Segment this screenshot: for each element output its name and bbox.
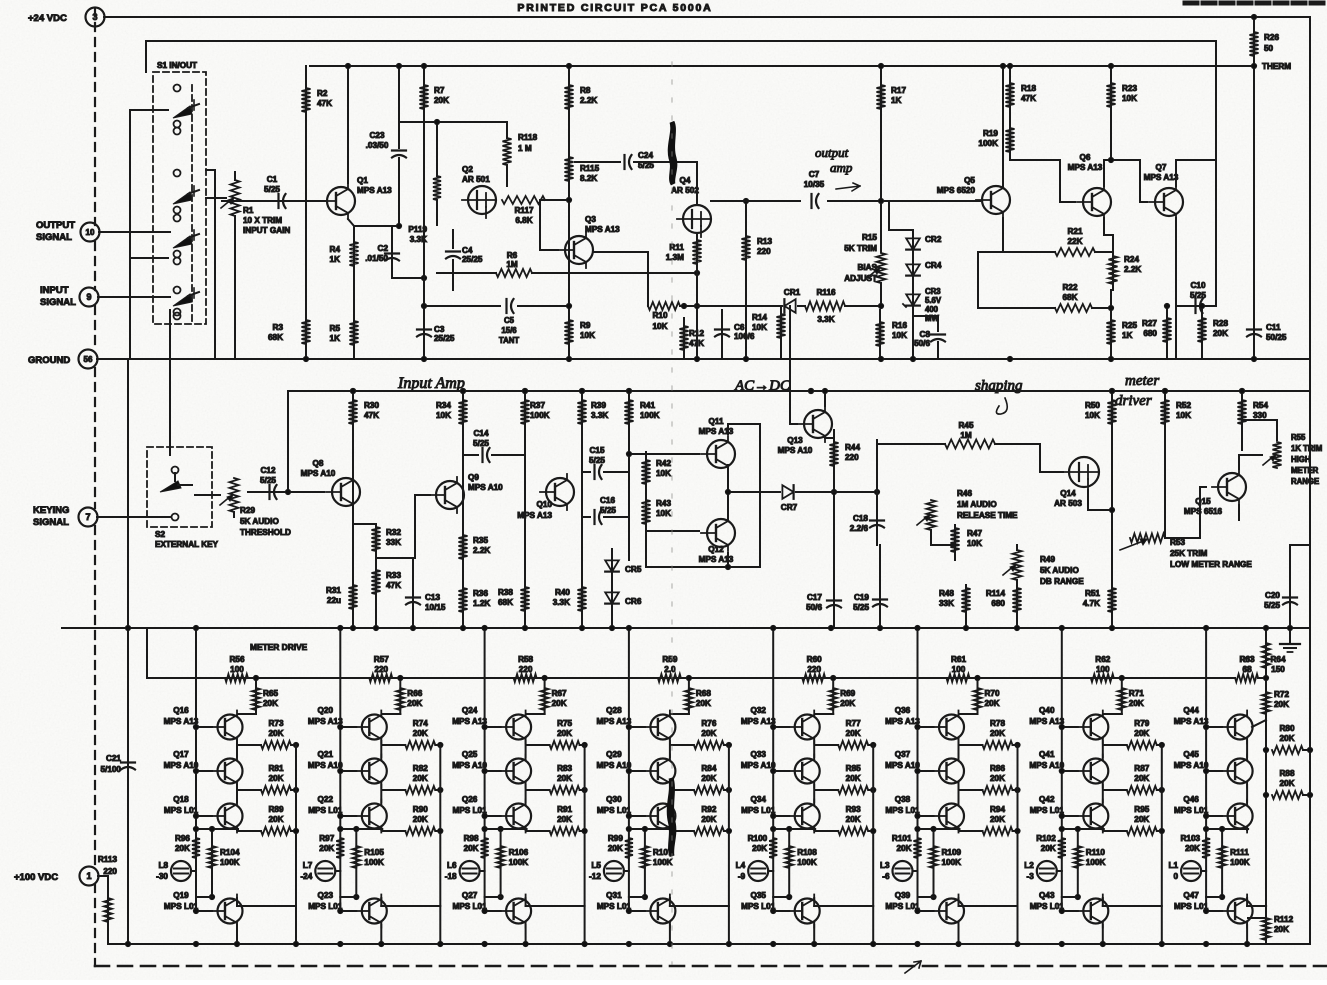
svg-text:MPS A13: MPS A13 [741, 717, 776, 726]
svg-text:100K: 100K [530, 411, 550, 420]
svg-text:C12: C12 [260, 466, 275, 475]
svg-text:Q15: Q15 [1195, 497, 1211, 506]
svg-text:220: 220 [757, 247, 771, 256]
svg-text:R76: R76 [701, 719, 716, 728]
svg-text:R2: R2 [317, 89, 328, 98]
svg-text:20K: 20K [1279, 779, 1294, 788]
svg-text:R68: R68 [696, 689, 711, 698]
svg-text:220: 220 [807, 665, 821, 674]
svg-text:100: 100 [1096, 665, 1110, 674]
svg-text:L4: L4 [736, 861, 746, 870]
svg-text:Q47: Q47 [1183, 891, 1199, 900]
svg-text:100K: 100K [653, 858, 673, 867]
svg-text:Q10: Q10 [537, 500, 553, 509]
svg-text:10K: 10K [1176, 411, 1191, 420]
svg-text:MPS A10: MPS A10 [301, 469, 336, 478]
svg-text:20K: 20K [896, 844, 911, 853]
svg-text:R89: R89 [268, 805, 283, 814]
svg-text:R110: R110 [1086, 848, 1106, 857]
svg-text:MPS A10: MPS A10 [1029, 761, 1064, 770]
svg-text:R21: R21 [1067, 227, 1082, 236]
svg-text:2.2K: 2.2K [1124, 265, 1141, 274]
svg-text:R94: R94 [990, 805, 1005, 814]
svg-text:Q17: Q17 [173, 750, 189, 759]
svg-text:10K: 10K [752, 323, 767, 332]
svg-text:1K: 1K [1122, 331, 1133, 340]
svg-text:10K: 10K [1122, 94, 1137, 103]
svg-text:C21: C21 [106, 754, 121, 763]
svg-text:100K: 100K [364, 858, 384, 867]
svg-text:R22: R22 [1062, 283, 1077, 292]
svg-text:C6: C6 [734, 323, 745, 332]
svg-text:20K: 20K [840, 699, 855, 708]
svg-text:R95: R95 [1134, 805, 1149, 814]
svg-text:R70: R70 [985, 689, 1000, 698]
svg-text:R32: R32 [386, 528, 401, 537]
svg-text:Q34: Q34 [750, 795, 766, 804]
svg-text:R54: R54 [1253, 401, 1268, 410]
svg-text:5/25: 5/25 [853, 603, 869, 612]
svg-text:Q38: Q38 [895, 795, 911, 804]
svg-text:MPS A10: MPS A10 [164, 761, 199, 770]
svg-text:R30: R30 [364, 401, 379, 410]
svg-text:20K: 20K [608, 844, 623, 853]
svg-text:R113: R113 [98, 855, 118, 864]
svg-text:C19: C19 [854, 593, 869, 602]
svg-text:L7: L7 [303, 861, 313, 870]
svg-text:P119: P119 [408, 225, 427, 234]
svg-text:METER DRIVE: METER DRIVE [250, 642, 308, 652]
svg-text:Q13: Q13 [787, 436, 803, 445]
svg-text:R75: R75 [557, 719, 572, 728]
svg-text:L2: L2 [1024, 861, 1034, 870]
svg-text:R15: R15 [862, 233, 877, 242]
svg-text:MPS A10: MPS A10 [1174, 761, 1209, 770]
svg-text:Q37: Q37 [895, 750, 911, 759]
svg-text:R28: R28 [1213, 319, 1228, 328]
svg-text:4.7K: 4.7K [1083, 599, 1100, 608]
svg-text:R84: R84 [701, 764, 716, 773]
svg-text:R49: R49 [1040, 555, 1055, 564]
svg-text:R109: R109 [942, 848, 962, 857]
svg-text:MPS A13: MPS A13 [164, 717, 199, 726]
svg-text:R38: R38 [498, 588, 513, 597]
svg-text:1M AUDIO: 1M AUDIO [957, 500, 997, 509]
svg-text:Q6: Q6 [1080, 153, 1091, 162]
svg-text:R34: R34 [436, 401, 451, 410]
svg-text:R3: R3 [273, 323, 284, 332]
svg-text:-6: -6 [882, 872, 890, 881]
svg-text:5K AUDIO: 5K AUDIO [1040, 566, 1079, 575]
svg-text:Q35: Q35 [750, 891, 766, 900]
svg-text:25/25: 25/25 [462, 255, 483, 264]
svg-text:5/100: 5/100 [101, 765, 122, 774]
svg-text:R45: R45 [958, 421, 973, 430]
svg-text:Q19: Q19 [173, 891, 189, 900]
svg-text:400: 400 [925, 305, 939, 314]
svg-text:20K: 20K [319, 844, 334, 853]
svg-text:SIGNAL: SIGNAL [33, 517, 69, 528]
svg-text:driver: driver [1115, 393, 1152, 409]
svg-text:Q46: Q46 [1183, 795, 1199, 804]
svg-text:R46: R46 [957, 489, 972, 498]
svg-text:Q31: Q31 [606, 891, 622, 900]
svg-text:R58: R58 [518, 655, 533, 664]
svg-text:20K: 20K [752, 844, 767, 853]
svg-text:33K: 33K [939, 599, 954, 608]
svg-text:10K: 10K [1085, 411, 1100, 420]
svg-text:100: 100 [230, 665, 244, 674]
svg-text:5/25: 5/25 [589, 456, 605, 465]
svg-text:C20: C20 [1265, 591, 1280, 600]
svg-text:R69: R69 [840, 689, 855, 698]
svg-text:MPS A13: MPS A13 [357, 186, 392, 195]
svg-text:R72: R72 [1274, 690, 1289, 699]
svg-text:PRINTED CIRCUIT PCA 5000A: PRINTED CIRCUIT PCA 5000A [517, 2, 712, 14]
svg-text:AR 501: AR 501 [462, 175, 490, 184]
svg-text:Q5: Q5 [964, 176, 975, 185]
svg-text:R111: R111 [1230, 848, 1249, 857]
svg-text:Q3: Q3 [585, 215, 596, 224]
svg-text:C1: C1 [267, 175, 278, 184]
svg-text:L6: L6 [447, 861, 457, 870]
svg-text:HIGH: HIGH [1291, 455, 1311, 464]
svg-text:Q9: Q9 [468, 473, 479, 482]
svg-text:MPS A13: MPS A13 [597, 717, 632, 726]
svg-text:10K: 10K [652, 322, 667, 331]
svg-text:C16: C16 [600, 496, 615, 505]
svg-text:shaping: shaping [975, 378, 1023, 394]
svg-text:20K: 20K [557, 815, 572, 824]
svg-text:MPS A10: MPS A10 [885, 761, 920, 770]
svg-text:R42: R42 [656, 459, 671, 468]
svg-text:20K: 20K [552, 699, 567, 708]
svg-text:10K: 10K [967, 539, 982, 548]
svg-text:Q44: Q44 [1183, 706, 1199, 715]
svg-text:100K: 100K [1086, 858, 1106, 867]
svg-text:C5: C5 [504, 316, 515, 325]
svg-text:47K: 47K [364, 411, 379, 420]
svg-text:R97: R97 [319, 834, 334, 843]
svg-text:R104: R104 [220, 848, 240, 857]
svg-text:MPS A13: MPS A13 [1068, 163, 1103, 172]
svg-text:20K: 20K [1185, 844, 1200, 853]
svg-text:MPS L01: MPS L01 [885, 806, 920, 815]
svg-text:220: 220 [519, 665, 533, 674]
svg-text:R99: R99 [608, 834, 623, 843]
svg-text:Q2: Q2 [462, 165, 473, 174]
svg-text:20K: 20K [701, 815, 716, 824]
svg-text:amp: amp [830, 160, 853, 175]
svg-text:Q42: Q42 [1039, 795, 1055, 804]
svg-text:100K: 100K [640, 411, 660, 420]
svg-text:Q28: Q28 [606, 706, 622, 715]
svg-text:R43: R43 [656, 499, 671, 508]
svg-text:Q36: Q36 [895, 706, 911, 715]
svg-text:R40: R40 [555, 588, 570, 597]
svg-text:R27: R27 [1142, 319, 1157, 328]
svg-text:R117: R117 [514, 206, 534, 215]
svg-text:7: 7 [85, 512, 90, 522]
svg-text:5/25: 5/25 [260, 476, 276, 485]
svg-text:R65: R65 [263, 689, 278, 698]
svg-text:10K: 10K [656, 509, 671, 518]
svg-text:R82: R82 [413, 764, 428, 773]
svg-text:20K: 20K [434, 96, 449, 105]
svg-text:5/25: 5/25 [1190, 291, 1206, 300]
svg-text:10K: 10K [892, 331, 907, 340]
svg-text:CR2: CR2 [925, 235, 942, 244]
svg-text:CR1: CR1 [784, 288, 801, 297]
svg-text:MPS L01: MPS L01 [1174, 806, 1209, 815]
svg-text:C7: C7 [809, 170, 820, 179]
svg-text:GROUND: GROUND [28, 355, 70, 366]
svg-text:-30: -30 [156, 872, 168, 881]
svg-text:R1: R1 [243, 206, 254, 215]
svg-text:R60: R60 [807, 655, 822, 664]
svg-text:-12: -12 [589, 872, 601, 881]
svg-text:R71: R71 [1129, 689, 1144, 698]
svg-text:R13: R13 [757, 237, 772, 246]
svg-text:10K: 10K [436, 411, 451, 420]
svg-text:R10: R10 [652, 311, 667, 320]
svg-text:C11: C11 [1266, 323, 1281, 332]
svg-text:Input Amp: Input Amp [397, 375, 465, 392]
svg-text:L8: L8 [158, 861, 168, 870]
svg-text:MPS A10: MPS A10 [468, 483, 503, 492]
svg-text:C8: C8 [920, 330, 931, 339]
svg-text:20K: 20K [1274, 925, 1289, 934]
svg-text:3.3K: 3.3K [591, 411, 608, 420]
svg-text:MPS 6520: MPS 6520 [937, 186, 976, 195]
svg-text:3.3K: 3.3K [817, 315, 834, 324]
svg-text:S1 IN/OUT: S1 IN/OUT [157, 61, 197, 70]
svg-text:R85: R85 [846, 764, 861, 773]
svg-text:20K: 20K [1134, 815, 1149, 824]
svg-text:R77: R77 [846, 719, 861, 728]
svg-text:5/25: 5/25 [264, 185, 280, 194]
svg-text:100K: 100K [942, 858, 962, 867]
svg-text:MPS L01: MPS L01 [308, 902, 343, 911]
svg-text:MPS A10: MPS A10 [778, 446, 813, 455]
svg-text:R35: R35 [473, 536, 488, 545]
svg-text:MPS A10: MPS A10 [452, 761, 487, 770]
svg-text:C2: C2 [378, 244, 389, 253]
svg-text:THERM: THERM [1262, 62, 1291, 71]
svg-text:1: 1 [86, 871, 91, 881]
svg-text:20K: 20K [464, 844, 479, 853]
svg-text:Q45: Q45 [1183, 750, 1199, 759]
svg-text:0: 0 [1174, 872, 1179, 881]
svg-text:20K: 20K [263, 699, 278, 708]
svg-text:Q1: Q1 [357, 176, 368, 185]
svg-text:R59: R59 [662, 655, 677, 664]
svg-text:R17: R17 [891, 86, 906, 95]
svg-text:R103: R103 [1181, 834, 1201, 843]
svg-text:R98: R98 [464, 834, 479, 843]
svg-text:R51: R51 [1085, 589, 1100, 598]
svg-text:56: 56 [84, 355, 93, 364]
svg-text:R87: R87 [1134, 764, 1149, 773]
svg-text:C3: C3 [434, 325, 445, 334]
svg-text:R108: R108 [797, 848, 817, 857]
svg-text:MPS L01: MPS L01 [885, 902, 920, 911]
svg-text:25/25: 25/25 [434, 334, 455, 343]
svg-text:1 M: 1 M [518, 144, 532, 153]
svg-text:AC→DC: AC→DC [734, 378, 791, 394]
svg-text:R4: R4 [330, 245, 341, 254]
svg-text:5K AUDIO: 5K AUDIO [240, 517, 279, 526]
svg-text:Q12: Q12 [708, 545, 724, 554]
svg-text:100K: 100K [978, 139, 998, 148]
svg-text:Q18: Q18 [173, 795, 189, 804]
svg-text:R5: R5 [330, 324, 341, 333]
svg-text:R12: R12 [689, 329, 704, 338]
svg-text:Q27: Q27 [462, 891, 478, 900]
svg-text:47K: 47K [1021, 94, 1036, 103]
svg-text:THRESHOLD: THRESHOLD [240, 528, 291, 537]
svg-text:MPS A13: MPS A13 [1174, 717, 1209, 726]
svg-text:Q25: Q25 [462, 750, 478, 759]
svg-text:R83: R83 [557, 764, 572, 773]
svg-text:CR5: CR5 [625, 565, 642, 574]
svg-text:5K TRIM: 5K TRIM [844, 244, 877, 253]
svg-text:R52: R52 [1176, 401, 1191, 410]
svg-text:R39: R39 [591, 401, 606, 410]
svg-text:R102: R102 [1036, 834, 1056, 843]
svg-text:220: 220 [374, 665, 388, 674]
svg-text:R26: R26 [1264, 33, 1279, 42]
svg-text:MPS L01: MPS L01 [308, 806, 343, 815]
svg-text:R74: R74 [413, 719, 428, 728]
svg-text:-18: -18 [445, 872, 457, 881]
svg-text:100: 100 [952, 665, 966, 674]
svg-text:2.2K: 2.2K [473, 546, 490, 555]
svg-text:20K: 20K [1134, 774, 1149, 783]
svg-text:C14: C14 [473, 429, 488, 438]
svg-text:20K: 20K [557, 729, 572, 738]
svg-text:R114: R114 [986, 589, 1006, 598]
svg-text:CR4: CR4 [925, 261, 942, 270]
svg-text:CR6: CR6 [625, 597, 642, 606]
svg-text:R78: R78 [990, 719, 1005, 728]
svg-text:CR3: CR3 [925, 287, 941, 296]
svg-text:47K: 47K [386, 581, 401, 590]
svg-text:BIAS: BIAS [857, 263, 877, 272]
svg-text:50/25: 50/25 [1266, 333, 1287, 342]
svg-text:R64: R64 [1270, 655, 1285, 664]
svg-text:-3: -3 [1027, 872, 1035, 881]
svg-text:C24: C24 [638, 151, 653, 160]
svg-text:50/6: 50/6 [806, 603, 822, 612]
svg-text:R112: R112 [1274, 915, 1294, 924]
svg-text:10 X TRIM: 10 X TRIM [243, 216, 282, 225]
svg-text:OUTPUT: OUTPUT [36, 220, 75, 231]
svg-text:68K: 68K [498, 598, 513, 607]
svg-text:Q11: Q11 [708, 417, 723, 426]
svg-text:10K: 10K [656, 469, 671, 478]
svg-text:R23: R23 [1122, 84, 1137, 93]
svg-text:R7: R7 [434, 86, 445, 95]
svg-text:C13: C13 [425, 593, 440, 602]
svg-text:20K: 20K [696, 699, 711, 708]
svg-text:20K: 20K [1041, 844, 1056, 853]
svg-text:20K: 20K [268, 729, 283, 738]
svg-text:3.3K: 3.3K [553, 598, 570, 607]
svg-text:+24 VDC: +24 VDC [28, 13, 67, 24]
svg-text:20K: 20K [413, 815, 428, 824]
svg-text:20K: 20K [175, 844, 190, 853]
svg-text:68K: 68K [268, 333, 283, 342]
svg-text:R79: R79 [1134, 719, 1149, 728]
svg-text:10/35: 10/35 [804, 180, 825, 189]
svg-text:MPS L01: MPS L01 [453, 806, 488, 815]
svg-text:R91: R91 [557, 805, 572, 814]
svg-text:R90: R90 [413, 805, 428, 814]
svg-text:MPS L01: MPS L01 [1030, 902, 1065, 911]
svg-text:R56: R56 [229, 655, 244, 664]
svg-text:R19: R19 [983, 129, 998, 138]
svg-text:1M: 1M [960, 431, 972, 440]
svg-text:10: 10 [86, 228, 95, 237]
svg-text:1K: 1K [891, 96, 902, 105]
svg-text:20K: 20K [846, 774, 861, 783]
svg-text:100K: 100K [220, 858, 240, 867]
svg-text:3: 3 [92, 12, 97, 22]
svg-text:100/6: 100/6 [734, 332, 755, 341]
svg-text:2.2K: 2.2K [580, 96, 597, 105]
svg-text:8.2K: 8.2K [580, 174, 597, 183]
svg-text:R88: R88 [1279, 769, 1294, 778]
svg-text:33K: 33K [386, 538, 401, 547]
svg-text:INPUT GAIN: INPUT GAIN [243, 226, 290, 235]
svg-text:R101: R101 [892, 834, 912, 843]
svg-text:20K: 20K [846, 815, 861, 824]
svg-text:Q33: Q33 [750, 750, 766, 759]
svg-text:R96: R96 [175, 834, 190, 843]
svg-text:R44: R44 [845, 443, 860, 452]
svg-text:20K: 20K [1129, 699, 1144, 708]
svg-text:3.3K: 3.3K [410, 235, 427, 244]
svg-text:MPS L01: MPS L01 [597, 806, 632, 815]
svg-text:20K: 20K [1134, 729, 1149, 738]
svg-text:1K TRIM: 1K TRIM [1291, 444, 1322, 453]
svg-text:TANT: TANT [499, 336, 519, 345]
svg-text:Q26: Q26 [462, 795, 478, 804]
svg-text:L1: L1 [1169, 861, 1179, 870]
svg-text:R67: R67 [552, 689, 567, 698]
svg-text:Q32: Q32 [750, 706, 766, 715]
svg-text:MPS L01: MPS L01 [1030, 806, 1065, 815]
svg-text:5.6V: 5.6V [925, 296, 942, 305]
svg-text:20K: 20K [268, 815, 283, 824]
svg-text:R93: R93 [846, 805, 861, 814]
svg-text:R92: R92 [701, 805, 716, 814]
svg-text:680: 680 [991, 599, 1005, 608]
svg-text:MPS A13: MPS A13 [1029, 717, 1064, 726]
svg-text:22K: 22K [1067, 237, 1082, 246]
svg-text:output: output [815, 145, 849, 160]
svg-text:R100: R100 [748, 834, 768, 843]
svg-text:meter: meter [1125, 373, 1159, 389]
svg-text:R48: R48 [939, 589, 954, 598]
svg-text:10K: 10K [580, 331, 595, 340]
svg-text:R118: R118 [518, 133, 538, 142]
svg-text:220: 220 [103, 867, 117, 876]
svg-text:-9: -9 [738, 872, 746, 881]
svg-text:.03/50: .03/50 [366, 141, 389, 150]
svg-text:20K: 20K [990, 815, 1005, 824]
